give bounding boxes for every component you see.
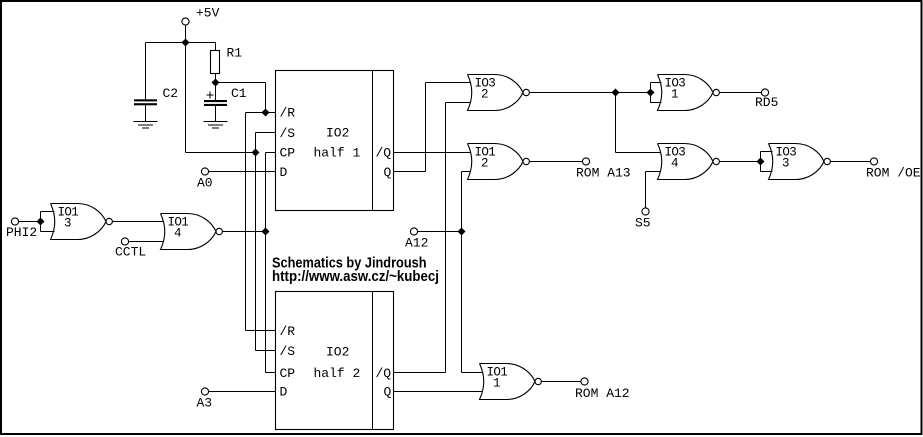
flip-flop IO2 half 1 <box>276 71 394 211</box>
svg-text:R1: R1 <box>227 46 243 61</box>
svg-text:PHI2: PHI2 <box>6 225 37 240</box>
capacitor C1 <box>204 83 247 122</box>
gate IO3 unit 3 (NOR) <box>769 144 831 180</box>
svg-text:2: 2 <box>481 157 488 171</box>
node dot2 /S net <box>252 149 260 157</box>
svg-text:CP: CP <box>280 366 296 381</box>
svg-text:A3: A3 <box>197 396 213 411</box>
svg-text:3: 3 <box>64 217 71 231</box>
gate IO1 unit 1 (NOR) <box>480 364 542 400</box>
svg-text:ROM A12: ROM A12 <box>575 386 630 401</box>
svg-text:/S: /S <box>280 344 296 359</box>
node IO3/3 tied-input junction <box>761 152 773 172</box>
terminal A12 <box>410 228 417 235</box>
svg-text:http://www.asw.cz/~kubecj: http://www.asw.cz/~kubecj <box>272 268 439 285</box>
ground (C1) <box>204 122 228 129</box>
ground (C2) <box>134 122 158 129</box>
svg-text:Q: Q <box>384 165 392 180</box>
wire IO3/1 out to RD5 <box>719 92 761 94</box>
terminal ROM A12 <box>581 378 588 385</box>
wire /Q half2 riser to IO3/2 in2 <box>394 103 472 373</box>
resistor R1 <box>211 43 243 83</box>
svg-text:A12: A12 <box>405 236 428 251</box>
wire PHI2 to junction <box>19 221 41 223</box>
svg-text:/Q: /Q <box>376 146 392 161</box>
svg-text:4: 4 <box>174 227 181 241</box>
wire /S half2 <box>256 350 276 352</box>
node junction on IO3/2 out <box>612 89 620 97</box>
capacitor C2 <box>134 43 178 122</box>
wire IO1/4 out to dot3 <box>222 231 265 233</box>
svg-text:/R: /R <box>280 106 296 121</box>
terminal PHI2 <box>11 218 18 225</box>
terminal +5V <box>182 18 189 25</box>
wire IO3/3 out to ROM /OE <box>830 161 870 163</box>
svg-text:D: D <box>280 165 288 180</box>
wire A0 to D half1 <box>209 171 276 173</box>
svg-text:IO2: IO2 <box>326 126 349 141</box>
node A12 junction <box>458 228 466 236</box>
svg-text:/R: /R <box>280 324 296 339</box>
wire CCTL to IO1/4 in2 <box>129 241 164 243</box>
wire +5V drop to /S feed <box>185 43 187 153</box>
svg-text:4: 4 <box>671 157 678 171</box>
terminal RD5 <box>761 89 768 96</box>
svg-text:half 1: half 1 <box>314 146 361 161</box>
node PHI2 tied-input junction <box>41 212 55 232</box>
wire IO1/1 out to ROM A12 <box>541 381 581 383</box>
wire IO1/2 out to ROM A13 <box>529 161 582 163</box>
wire Q half2 to IO1/1 in2 <box>394 391 484 393</box>
wire /Q half1 to IO1/2 in1 <box>394 152 472 154</box>
gate IO3 unit 2 (NOR) <box>468 75 530 111</box>
wire R1 bottom to /R drop <box>216 82 266 84</box>
wire /S vertical <box>255 133 257 351</box>
svg-text:half 2: half 2 <box>314 366 361 381</box>
gate IO1 unit 4 (NOR) <box>161 214 223 250</box>
svg-text:Q: Q <box>384 385 392 400</box>
wire IO1/3 out to IO1/4 in1 <box>112 221 164 223</box>
svg-text:1: 1 <box>493 377 500 391</box>
terminal A0 <box>201 168 208 175</box>
terminal A3 <box>201 388 208 395</box>
node IO3/1 tied-input junction <box>651 83 662 103</box>
wire A12 net <box>418 172 483 373</box>
wire /S half1 <box>256 132 276 134</box>
svg-text:S5: S5 <box>635 216 651 231</box>
wire IO3/2-out drop to IO3/4 in1 <box>616 93 662 153</box>
terminal CCTL <box>121 238 128 245</box>
wire S5 to IO3/4 in2 <box>646 172 662 208</box>
svg-text:+5V: +5V <box>196 6 220 21</box>
svg-text:RD5: RD5 <box>755 95 778 110</box>
node dot3 CP net <box>262 228 270 236</box>
wire +5V stem <box>185 25 187 42</box>
node R1 bottom junction <box>212 79 220 87</box>
gate IO3 unit 4 (NOR) <box>658 144 720 180</box>
svg-text:D: D <box>280 385 288 400</box>
terminal S5 <box>642 208 649 215</box>
svg-text:/Q: /Q <box>376 366 392 381</box>
terminal ROM A13 <box>582 158 589 165</box>
node +5V rail junction <box>182 39 190 47</box>
terminal ROM /OE <box>870 158 877 165</box>
wire CP vertical <box>265 153 267 373</box>
wire /R vertical half1-half2 <box>245 113 247 331</box>
wire A3 to D half2 <box>209 391 276 393</box>
wire /R half1 <box>246 112 276 114</box>
svg-text:CCTL: CCTL <box>115 245 146 260</box>
wire IO3/4 out to IO3/3 junction <box>719 161 760 163</box>
wire CP half2 <box>266 372 276 374</box>
wire +5V rail <box>146 42 216 44</box>
svg-text:3: 3 <box>782 157 789 171</box>
wire drop to /R (dot1) <box>265 83 267 113</box>
svg-text:A0: A0 <box>197 176 213 191</box>
wire Q half1 riser to IO3/2 in1 <box>394 83 472 172</box>
svg-text:IO2: IO2 <box>326 345 349 360</box>
gate IO1 unit 2 (NOR) <box>468 144 530 180</box>
svg-text:ROM /OE: ROM /OE <box>866 166 921 181</box>
wire CP half1 <box>266 152 276 154</box>
flip-flop IO2 half 2 <box>276 292 394 430</box>
svg-text:/S: /S <box>280 126 296 141</box>
gate IO3 unit 1 (NOR) <box>658 75 720 111</box>
svg-text:2: 2 <box>481 88 488 102</box>
wire /S feed to dot2 <box>186 152 256 154</box>
wire /R half2 <box>246 330 276 332</box>
svg-text:C2: C2 <box>163 86 179 101</box>
svg-text:ROM A13: ROM A13 <box>576 166 631 181</box>
svg-text:C1: C1 <box>231 86 247 101</box>
svg-text:1: 1 <box>671 88 678 102</box>
svg-text:CP: CP <box>280 146 296 161</box>
gate IO1 unit 3 (NOR) <box>51 204 113 240</box>
wire IO3/2 out <box>529 92 650 94</box>
